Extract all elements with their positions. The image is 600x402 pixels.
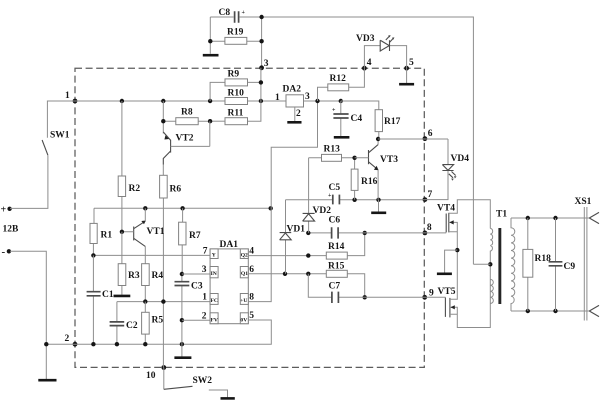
svg-text:4: 4	[367, 58, 372, 68]
wire ground row node2	[44, 320, 271, 346]
svg-text:FC: FC	[211, 298, 218, 304]
resistor R8	[161, 101, 212, 134]
wire node6 row	[378, 138, 448, 140]
svg-text:C6: C6	[329, 216, 341, 226]
svg-text:-: -	[2, 246, 6, 258]
svg-text:R8: R8	[181, 108, 193, 118]
svg-text:3: 3	[264, 59, 269, 69]
capacitor C9	[549, 218, 576, 311]
transformer T1 secondary	[511, 218, 515, 311]
MOSFET VT5	[438, 250, 491, 327]
svg-text:+U: +U	[240, 298, 247, 304]
svg-text:R14: R14	[328, 242, 345, 252]
svg-text:DA1: DA1	[220, 240, 239, 250]
resistor R12	[318, 68, 365, 101]
wire DA2 pin3 node	[304, 99, 343, 103]
MOSFET VT4	[437, 200, 490, 250]
svg-text:SW2: SW2	[193, 376, 213, 386]
wire FV row (pin2)	[182, 319, 210, 321]
resistor R11	[210, 109, 247, 125]
LED VD3	[356, 34, 407, 68]
capacitor C2	[110, 302, 138, 345]
resistor R16	[351, 156, 377, 200]
svg-text:Y: Y	[212, 253, 216, 259]
svg-text:1: 1	[202, 293, 207, 303]
chip DA2	[275, 85, 310, 122]
diode VD1	[280, 200, 306, 274]
svg-text:C9: C9	[564, 262, 576, 272]
ground under C8	[203, 54, 219, 57]
resistor R18	[523, 218, 551, 311]
node 1	[65, 91, 77, 103]
ground under C3 column	[174, 356, 191, 359]
resistor R3	[118, 232, 140, 295]
resistor R7	[179, 208, 201, 274]
svg-text:2: 2	[296, 109, 301, 119]
ground under R3	[114, 295, 131, 298]
ground under DA2	[287, 121, 301, 124]
svg-text:R19: R19	[227, 28, 244, 38]
node 3	[259, 59, 269, 70]
battery + terminal	[1, 205, 12, 216]
node 4	[362, 58, 372, 71]
svg-text:R13: R13	[324, 145, 341, 155]
capacitor C5	[328, 183, 340, 204]
resistor R9	[210, 70, 261, 102]
svg-text:1: 1	[275, 93, 280, 103]
node 6	[423, 129, 433, 141]
transistor VT1	[120, 208, 165, 263]
wire + terminal to SW1	[10, 155, 48, 208]
resistor R1	[90, 208, 112, 255]
svg-text:2: 2	[202, 312, 207, 322]
resistor R4	[142, 264, 164, 302]
svg-text:R11: R11	[228, 109, 244, 119]
wire C6 node8 row	[306, 231, 446, 235]
battery - terminal	[2, 246, 12, 258]
capacitor C1	[87, 255, 114, 344]
capacitor C6	[329, 216, 341, 239]
svg-text:C3: C3	[191, 282, 203, 292]
svg-text:+: +	[328, 193, 332, 199]
ground at VT4/VT5 sources	[437, 248, 460, 274]
svg-text:5: 5	[409, 58, 414, 68]
svg-text:VD3: VD3	[356, 34, 375, 44]
svg-text:Q1: Q1	[241, 271, 248, 277]
svg-text:R9: R9	[228, 70, 240, 80]
svg-text:R12: R12	[330, 74, 347, 84]
svg-text:C5: C5	[329, 183, 341, 193]
svg-text:R1: R1	[101, 231, 113, 241]
svg-text:VT5: VT5	[438, 287, 456, 297]
wire pin8 +U riser	[248, 101, 317, 302]
svg-text:8: 8	[427, 223, 432, 233]
wire +12V rail node1 row	[75, 99, 286, 103]
svg-text:4: 4	[249, 247, 254, 257]
wire C8/R19 top net	[208, 15, 473, 264]
svg-text:5: 5	[249, 311, 254, 321]
svg-text:VD2: VD2	[313, 206, 332, 216]
node 9	[422, 289, 434, 300]
ground under C4	[334, 136, 350, 139]
transformer T1 core	[498, 228, 501, 304]
svg-text:7: 7	[203, 246, 208, 256]
op-amp chip DA1	[210, 240, 248, 324]
svg-text:VD4: VD4	[451, 154, 470, 164]
wire pin4 row to R14	[248, 231, 367, 258]
resistor R15	[326, 262, 347, 278]
node 7	[423, 190, 433, 202]
svg-text:3: 3	[202, 265, 207, 275]
svg-text:C8: C8	[219, 8, 231, 18]
svg-text:+: +	[332, 108, 336, 114]
wire node3 riser	[248, 68, 264, 121]
ground at battery minus	[38, 379, 56, 382]
wire node9 row	[365, 296, 446, 298]
svg-text:1: 1	[65, 91, 70, 101]
svg-text:VD1: VD1	[287, 225, 306, 235]
node 10	[146, 365, 166, 381]
svg-text:R6: R6	[170, 185, 182, 195]
svg-text:R5: R5	[152, 316, 164, 326]
switch SW1	[42, 101, 75, 155]
capacitor C3	[175, 272, 203, 357]
svg-text:+: +	[242, 10, 246, 16]
wire secondary top row	[511, 216, 590, 220]
wire FC row (pin1)	[117, 299, 210, 303]
svg-text:R2: R2	[129, 184, 141, 194]
wire secondary bottom row	[511, 309, 590, 313]
svg-text:6: 6	[428, 129, 433, 139]
svg-text:R4: R4	[152, 271, 164, 281]
ground under VT3 emitter	[371, 200, 386, 213]
svg-text:R3: R3	[128, 271, 140, 281]
svg-text:DA2: DA2	[283, 85, 302, 95]
svg-text:XS1: XS1	[575, 197, 592, 207]
svg-text:Q2: Q2	[241, 253, 248, 259]
svg-text:R10: R10	[228, 89, 245, 99]
wire - terminal to ground	[10, 251, 46, 379]
svg-text:VT2: VT2	[176, 134, 194, 144]
label 12B	[3, 225, 20, 235]
svg-text:0V: 0V	[240, 317, 247, 323]
svg-text:7: 7	[428, 190, 433, 200]
svg-text:VT4: VT4	[437, 204, 455, 214]
svg-text:10: 10	[146, 371, 156, 381]
svg-text:IN: IN	[211, 271, 217, 277]
ground under SW2	[221, 397, 235, 400]
LED VD4	[425, 139, 469, 200]
wire pin7 row	[91, 253, 210, 257]
wire C5 node7 row	[286, 198, 425, 202]
resistor R2	[118, 101, 140, 232]
wire pin3 row	[182, 273, 210, 275]
node 8	[423, 223, 432, 235]
svg-text:R15: R15	[328, 262, 345, 272]
resistor R13	[309, 145, 355, 162]
svg-text:VT3: VT3	[380, 155, 398, 165]
resistor R5	[142, 302, 164, 345]
capacitor C7	[308, 274, 364, 303]
capacitor C4	[332, 101, 362, 136]
svg-text:12B: 12B	[3, 225, 20, 235]
svg-text:R16: R16	[361, 177, 378, 187]
resistor R6	[160, 165, 182, 368]
switch SW2	[164, 368, 228, 398]
svg-text:R7: R7	[189, 231, 201, 241]
ground under node 5	[399, 68, 414, 84]
resistor R14	[326, 242, 347, 259]
svg-text:R17: R17	[384, 117, 401, 127]
DA1 pin number labels	[202, 246, 255, 321]
node 5	[404, 58, 414, 71]
svg-text:FV: FV	[211, 317, 218, 323]
dashed converter block border	[75, 68, 424, 367]
resistor R19	[225, 28, 247, 45]
resistor R10	[225, 89, 248, 105]
resistor R17	[341, 101, 401, 139]
svg-text:C2: C2	[126, 321, 138, 331]
svg-text:2: 2	[65, 334, 70, 344]
transistor VT3	[355, 137, 399, 200]
node 2	[65, 334, 78, 347]
svg-text:C7: C7	[329, 282, 341, 292]
diode VD2	[303, 158, 332, 233]
capacitor C8	[219, 8, 246, 23]
svg-text:VT1: VT1	[147, 227, 165, 237]
svg-text:+: +	[1, 205, 7, 216]
connector XS1	[575, 197, 600, 321]
wire pin6 row to R15	[248, 272, 367, 300]
svg-text:T1: T1	[496, 210, 507, 220]
svg-text:C4: C4	[351, 114, 363, 124]
svg-text:C1: C1	[102, 290, 114, 300]
svg-text:SW1: SW1	[50, 131, 70, 141]
transformer T1 primary	[473, 210, 507, 304]
transistor VT2	[163, 121, 210, 164]
wire 12V distribution row	[94, 206, 273, 210]
